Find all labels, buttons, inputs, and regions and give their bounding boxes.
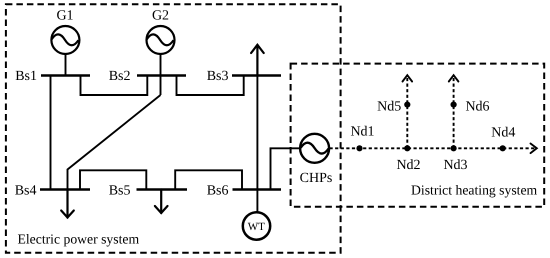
node Nd1 [356, 145, 362, 151]
district heating system dashed boundary box [291, 64, 545, 207]
svg-text:Nd3: Nd3 [443, 158, 467, 173]
wire diagonal Bs2 to Bs4 [68, 95, 161, 190]
wire Bs1 down to Bs4 [50, 76, 52, 190]
svg-text:Nd6: Nd6 [465, 100, 489, 115]
wire Bs6 to CHPs [271, 148, 301, 189]
svg-text:District heating system: District heating system [411, 182, 538, 197]
svg-text:Electric power system: Electric power system [18, 232, 140, 247]
export arrow up from Bs3 line [251, 45, 264, 76]
bus Bs4 bar [40, 188, 90, 190]
svg-text:Bs3: Bs3 [207, 69, 229, 84]
heat main dashed pipe CHPs to Nd4 with arrow [330, 144, 537, 154]
svg-text:G1: G1 [56, 9, 73, 24]
svg-text:CHPs: CHPs [300, 171, 333, 186]
wire tie Bs1 to Bs2 [81, 76, 148, 96]
svg-text:G2: G2 [152, 9, 169, 24]
heat branch dashed pipe Nd2 to Nd5 with arrow [403, 75, 413, 148]
bus Bs1 bar [41, 74, 90, 76]
bus Bs5 bar [137, 188, 188, 190]
wire G1 lead to Bs1 [65, 54, 67, 76]
svg-text:Bs6: Bs6 [207, 183, 229, 198]
heat branch dashed pipe Nd3 to Nd6 with arrow [449, 75, 459, 148]
wire G2 lead through Bs2 down to diagonal [160, 54, 162, 95]
wire Bs3 down to Bs6 and WT [256, 76, 258, 213]
electric power system dashed boundary box [6, 4, 341, 252]
svg-text:Bs1: Bs1 [15, 69, 37, 84]
bus Bs3 bar [232, 74, 281, 76]
wind turbine WT circle [243, 212, 270, 239]
wire tie Bs4 to Bs5 [80, 170, 146, 189]
svg-text:Nd5: Nd5 [377, 100, 401, 115]
bus Bs2 bar [137, 74, 186, 76]
CHP unit circle with sine symbol [300, 134, 329, 163]
load arrow at Bs5 [155, 190, 168, 214]
svg-text:Nd4: Nd4 [491, 126, 515, 141]
svg-text:WT: WT [248, 221, 265, 233]
node Nd4 [500, 145, 506, 151]
wire tie Bs2 to Bs3 [177, 76, 244, 96]
node Nd3 [451, 145, 457, 151]
wire tie Bs5 to Bs6 [175, 170, 242, 189]
load arrow at Bs4 [61, 190, 74, 218]
node Nd5 [404, 102, 410, 108]
generator G2 circle with sine symbol [147, 26, 175, 54]
node Nd2 [404, 145, 410, 151]
node Nd6 [451, 102, 457, 108]
generator G1 circle with sine symbol [51, 26, 79, 54]
svg-text:Nd1: Nd1 [350, 125, 374, 140]
svg-text:Bs2: Bs2 [109, 69, 131, 84]
svg-text:Bs4: Bs4 [15, 183, 37, 198]
bus Bs6 bar [233, 188, 282, 190]
svg-text:Nd2: Nd2 [396, 158, 420, 173]
svg-text:Bs5: Bs5 [109, 183, 131, 198]
